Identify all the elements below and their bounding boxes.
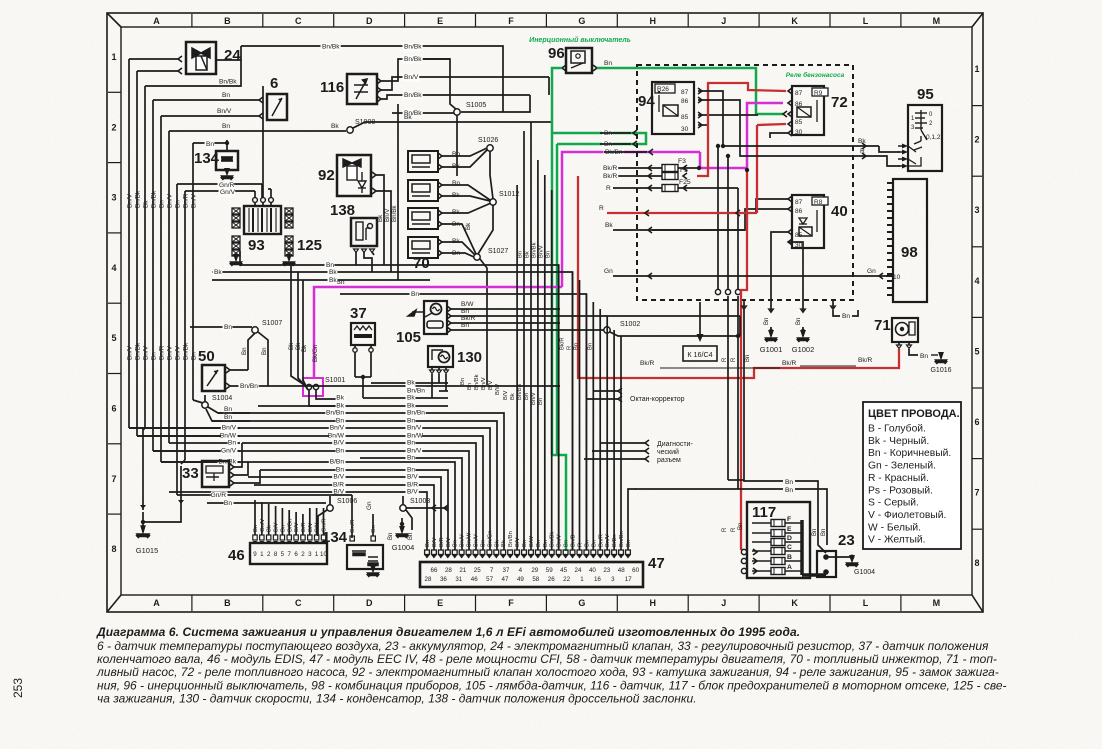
svg-text:D: D xyxy=(366,598,373,608)
secondary left labels on rows xyxy=(221,424,238,432)
svg-text:Bn: Bn xyxy=(228,440,236,447)
wire xyxy=(586,398,618,400)
svg-text:H: H xyxy=(650,598,657,608)
svg-text:Bn/V: Bn/V xyxy=(407,448,422,455)
svg-text:Bn/V: Bn/V xyxy=(330,425,345,432)
svg-text:Bk: Bk xyxy=(525,251,531,258)
wire xyxy=(402,496,404,505)
svg-text:R8: R8 xyxy=(814,199,823,206)
svg-text:Bn/V: Bn/V xyxy=(539,245,545,258)
svg-text:M: M xyxy=(933,16,941,26)
svg-text:66: 66 xyxy=(431,567,438,574)
svg-text:40: 40 xyxy=(831,203,848,220)
svg-text:8: 8 xyxy=(274,551,278,558)
wire xyxy=(698,124,707,126)
svg-text:B/R: B/R xyxy=(407,482,418,489)
svg-text:F25: F25 xyxy=(679,179,691,186)
fan wire xyxy=(620,336,622,550)
svg-text:117: 117 xyxy=(752,504,776,521)
svg-text:Gn/V: Gn/V xyxy=(221,448,237,455)
fan wire xyxy=(523,131,525,550)
svg-text:Bn: Bn xyxy=(407,418,415,425)
svg-text:Инерционный выключатель: Инерционный выключатель xyxy=(529,36,631,44)
svg-text:Bk: Bk xyxy=(465,222,472,230)
svg-text:F: F xyxy=(787,516,791,523)
pin xyxy=(570,550,575,555)
box xyxy=(412,155,430,163)
svg-text:ческий: ческий xyxy=(657,448,679,456)
spark plug connector left 125 xyxy=(232,208,240,214)
wire xyxy=(309,508,311,535)
pin 105 xyxy=(447,313,451,319)
svg-text:Ps - Розовый.: Ps - Розовый. xyxy=(868,485,933,496)
svg-text:M: M xyxy=(933,598,941,608)
wire Bk xyxy=(169,130,346,132)
svg-text:6: 6 xyxy=(974,417,979,427)
box xyxy=(250,543,327,564)
svg-text:Bn: Bn xyxy=(261,347,268,355)
fuse F3 xyxy=(662,165,678,172)
elbow wire xyxy=(169,442,240,444)
svg-text:G1001: G1001 xyxy=(760,345,783,354)
elbow wire xyxy=(153,450,240,452)
pin xyxy=(501,550,506,555)
svg-text:92: 92 xyxy=(318,167,335,184)
wire xyxy=(316,508,318,535)
wire xyxy=(258,332,268,386)
wire xyxy=(610,332,738,336)
box xyxy=(408,180,438,201)
svg-text:Bk: Bk xyxy=(214,269,222,276)
svg-text:Bk/R: Bk/R xyxy=(782,360,797,367)
junction xyxy=(225,141,229,145)
svg-text:Bn: Bn xyxy=(407,440,415,447)
svg-text:Bn/V: Bn/V xyxy=(191,193,198,208)
green to 47 xyxy=(552,455,566,551)
wire Gn/R xyxy=(177,183,262,185)
svg-text:Bn: Bn xyxy=(407,455,415,462)
wire xyxy=(192,143,194,400)
wire xyxy=(445,367,447,370)
svg-text:8: 8 xyxy=(111,544,116,554)
svg-text:134: 134 xyxy=(194,150,220,167)
pin 72 xyxy=(788,88,792,94)
svg-text:B/Bn: B/Bn xyxy=(330,459,345,466)
pin xyxy=(683,185,687,191)
svg-text:Gn/R: Gn/R xyxy=(350,519,356,533)
svg-text:Bn: Bn xyxy=(546,251,552,258)
pin xyxy=(626,550,631,555)
pin xyxy=(591,550,596,555)
pin xyxy=(648,173,652,179)
pin xyxy=(178,68,182,74)
svg-text:Bn/V: Bn/V xyxy=(481,377,487,390)
connector circle xyxy=(715,289,720,294)
svg-text:R9: R9 xyxy=(814,90,823,97)
ground xyxy=(765,331,778,342)
wire xyxy=(445,374,447,391)
wire xyxy=(351,495,353,538)
row wire into 47 xyxy=(242,443,476,550)
fan wire xyxy=(592,302,594,550)
wire xyxy=(234,462,248,475)
fan wire xyxy=(530,122,532,550)
svg-text:28: 28 xyxy=(425,576,432,583)
svg-text:86: 86 xyxy=(795,208,803,215)
row wire into 47 xyxy=(129,428,490,550)
pin xyxy=(633,141,637,147)
wire xyxy=(438,367,440,370)
fan wire xyxy=(516,185,518,550)
svg-text:Bn: Bn xyxy=(224,414,232,421)
wire xyxy=(770,133,788,138)
svg-text:B - Голубой.: B - Голубой. xyxy=(868,423,926,435)
svg-text:Bn: Bn xyxy=(812,529,818,536)
row wire xyxy=(439,390,448,392)
wire xyxy=(879,146,900,152)
wire xyxy=(852,310,858,316)
svg-text:B/V: B/V xyxy=(294,523,300,532)
svg-text:Bn/V: Bn/V xyxy=(407,425,422,432)
svg-text:Bn/Bk: Bn/Bk xyxy=(391,205,398,222)
wire xyxy=(737,488,739,490)
node xyxy=(252,327,258,333)
svg-text:Bn/Bk: Bn/Bk xyxy=(135,342,142,360)
pin xyxy=(372,188,376,194)
svg-text:Bk: Bk xyxy=(510,393,516,400)
svg-text:R: R xyxy=(606,185,611,192)
svg-text:85: 85 xyxy=(681,114,689,121)
svg-text:7: 7 xyxy=(490,567,494,574)
svg-text:Bn/V: Bn/V xyxy=(175,345,182,360)
svg-text:Bn/Bk: Bn/Bk xyxy=(322,44,340,51)
junction xyxy=(721,144,725,148)
svg-text:B/V: B/V xyxy=(407,474,418,481)
svg-text:S1006: S1006 xyxy=(337,498,357,505)
svg-text:Bn/V: Bn/V xyxy=(222,425,237,432)
svg-text:Bk: Bk xyxy=(329,269,337,276)
svg-text:22: 22 xyxy=(563,576,570,583)
svg-text:48: 48 xyxy=(618,567,625,574)
wire xyxy=(145,60,241,86)
wire xyxy=(788,242,803,247)
wire xyxy=(898,342,900,345)
pin xyxy=(649,149,653,155)
wire xyxy=(354,345,356,348)
svg-text:98: 98 xyxy=(901,244,918,261)
wire xyxy=(261,184,263,198)
wire xyxy=(230,369,248,371)
row wire into 47 xyxy=(248,477,441,550)
node xyxy=(306,384,311,389)
svg-text:B/W: B/W xyxy=(529,536,535,547)
svg-text:6: 6 xyxy=(294,551,298,558)
svg-text:86: 86 xyxy=(681,98,689,105)
fan wire xyxy=(585,294,587,550)
connector circle xyxy=(735,289,740,294)
wire xyxy=(431,367,433,370)
pin xyxy=(648,227,652,233)
box xyxy=(908,105,942,171)
node xyxy=(313,384,318,389)
wire xyxy=(254,202,256,206)
wire xyxy=(268,188,271,190)
wire xyxy=(826,556,852,558)
svg-text:25: 25 xyxy=(474,567,481,574)
svg-text:Bn: Bn xyxy=(452,151,460,158)
svg-text:F5: F5 xyxy=(680,167,688,174)
svg-text:Bk: Bk xyxy=(501,540,507,547)
pin xyxy=(438,164,442,170)
node xyxy=(327,505,333,511)
svg-text:B/V: B/V xyxy=(488,381,494,390)
node S1027 xyxy=(474,254,480,260)
svg-text:ния, 96 - инерционный выключат: ния, 96 - инерционный выключатель, 98 - … xyxy=(97,678,1007,692)
svg-text:разъем: разъем xyxy=(657,457,681,464)
svg-text:Gn: Gn xyxy=(604,268,613,275)
svg-text:Bn: Bn xyxy=(626,540,632,547)
wire xyxy=(275,506,277,535)
svg-text:Bk: Bk xyxy=(267,525,273,532)
wire xyxy=(552,68,562,131)
svg-text:R: R xyxy=(577,543,583,547)
pin xyxy=(577,550,582,555)
wire xyxy=(737,296,739,489)
ground G1004 right xyxy=(846,556,859,567)
svg-text:Bn/Bk: Bn/Bk xyxy=(474,374,480,390)
svg-text:Bk: Bk xyxy=(288,342,295,350)
svg-text:Bn/V: Bn/V xyxy=(143,345,150,360)
wire xyxy=(364,252,372,272)
box xyxy=(202,365,225,391)
svg-text:Bn/R: Bn/R xyxy=(159,345,166,360)
svg-text:K: K xyxy=(791,598,798,608)
svg-text:B: B xyxy=(224,598,231,608)
wire xyxy=(442,224,476,254)
svg-text:2: 2 xyxy=(111,122,116,132)
svg-text:ЦВЕТ ПРОВОДА.: ЦВЕТ ПРОВОДА. xyxy=(868,408,960,420)
svg-text:3: 3 xyxy=(308,551,312,558)
junction xyxy=(400,522,404,526)
wire xyxy=(744,300,783,481)
pin xyxy=(619,550,624,555)
fuse B xyxy=(771,558,785,565)
box xyxy=(863,402,961,549)
svg-text:Bn: Bn xyxy=(336,448,344,455)
svg-text:26: 26 xyxy=(548,576,555,583)
svg-text:28: 28 xyxy=(445,567,452,574)
svg-text:B/V: B/V xyxy=(333,474,344,481)
wire xyxy=(552,133,646,144)
wire xyxy=(548,77,550,95)
svg-text:96: 96 xyxy=(548,45,565,62)
wire to S1004 xyxy=(193,400,203,403)
pin xyxy=(432,505,436,511)
wire xyxy=(323,508,325,535)
wire xyxy=(208,407,250,413)
wire xyxy=(442,185,490,200)
svg-text:J: J xyxy=(721,16,726,26)
wire xyxy=(136,71,138,436)
wire xyxy=(717,146,719,289)
svg-text:70: 70 xyxy=(413,255,430,272)
wire xyxy=(908,342,910,345)
svg-text:Bk: Bk xyxy=(336,395,344,402)
fuse C xyxy=(771,548,785,555)
thick wire 117 to battery xyxy=(802,573,826,577)
svg-text:40: 40 xyxy=(589,567,596,574)
pin xyxy=(612,550,617,555)
svg-text:Bn: Bn xyxy=(241,347,248,355)
pin 94 xyxy=(698,88,702,94)
svg-text:57: 57 xyxy=(486,576,493,583)
wire xyxy=(456,115,458,176)
pin xyxy=(683,173,687,179)
svg-text:Bn/Bk: Bn/Bk xyxy=(151,190,158,208)
svg-text:87: 87 xyxy=(795,90,803,97)
wire xyxy=(876,156,900,166)
svg-text:30: 30 xyxy=(795,129,803,136)
box xyxy=(347,74,377,104)
wire xyxy=(295,512,297,535)
junction xyxy=(361,375,365,379)
svg-text:Bn: Bn xyxy=(326,262,334,269)
svg-text:130: 130 xyxy=(457,349,482,366)
wire Bn to 6 xyxy=(153,99,259,101)
wire xyxy=(478,205,493,254)
wire xyxy=(727,156,729,289)
pin xyxy=(438,193,442,199)
svg-text:G1004: G1004 xyxy=(392,543,415,552)
svg-text:G1015: G1015 xyxy=(136,546,159,555)
svg-text:G1002: G1002 xyxy=(792,345,815,354)
pin xyxy=(605,550,610,555)
box xyxy=(792,86,824,135)
pin xyxy=(593,65,597,71)
box xyxy=(347,545,383,569)
svg-text:87: 87 xyxy=(795,199,803,206)
svg-text:L: L xyxy=(863,598,869,608)
pin xyxy=(645,448,649,454)
wire xyxy=(451,308,560,310)
svg-text:Bn/Bk: Bn/Bk xyxy=(183,342,190,360)
pin xyxy=(438,210,442,216)
wire xyxy=(204,395,206,402)
wire xyxy=(698,91,879,146)
svg-text:S1001: S1001 xyxy=(325,377,345,384)
wire xyxy=(613,187,662,189)
svg-text:Bn: Bn xyxy=(785,479,793,486)
svg-text:S1007: S1007 xyxy=(262,320,282,327)
svg-text:Bn/V: Bn/V xyxy=(404,74,419,81)
wire xyxy=(613,275,886,277)
wire xyxy=(739,316,741,336)
svg-text:1: 1 xyxy=(580,576,584,583)
pin xyxy=(618,388,622,394)
svg-text:B/Bn: B/Bn xyxy=(612,534,618,547)
svg-text:Bk: Bk xyxy=(143,200,150,208)
pin xyxy=(466,550,471,555)
pin xyxy=(562,65,566,71)
svg-text:Bn/Bk: Bn/Bk xyxy=(550,531,556,547)
svg-text:R: R xyxy=(722,357,728,362)
svg-text:Bn: Bn xyxy=(764,318,770,325)
wire xyxy=(490,151,493,199)
wire xyxy=(268,504,270,535)
svg-text:Bn: Bn xyxy=(460,378,466,385)
svg-text:Bn: Bn xyxy=(336,467,344,474)
svg-text:37: 37 xyxy=(350,305,367,322)
svg-text:Bn/W: Bn/W xyxy=(467,532,473,547)
spark plugs 125 lower xyxy=(232,236,240,242)
wire Bk xyxy=(309,390,340,406)
row wire into 47 xyxy=(137,436,483,550)
pin 94 xyxy=(698,122,702,128)
wire xyxy=(181,460,185,464)
svg-text:Bn/W: Bn/W xyxy=(328,433,345,440)
wire to 24 xyxy=(129,58,178,60)
pin xyxy=(563,550,568,555)
svg-text:B/V: B/V xyxy=(407,489,418,496)
wire xyxy=(613,209,788,230)
svg-text:S1027: S1027 xyxy=(488,248,508,255)
coil top pins xyxy=(253,198,258,203)
svg-text:Bn - Коричневый.: Bn - Коричневый. xyxy=(868,448,951,459)
wire xyxy=(410,59,457,110)
wire xyxy=(756,199,788,213)
wire xyxy=(303,280,308,390)
svg-text:Bk: Bk xyxy=(407,403,415,410)
svg-text:Bk/R: Bk/R xyxy=(560,337,566,350)
svg-text:Bn: Bn xyxy=(425,540,431,547)
svg-text:Диагности-: Диагности- xyxy=(657,441,693,448)
junction xyxy=(850,555,855,560)
wire xyxy=(176,184,178,495)
svg-text:B/V: B/V xyxy=(274,523,280,532)
svg-text:Bn/V: Bn/V xyxy=(127,345,134,360)
svg-text:3: 3 xyxy=(111,193,116,203)
pin xyxy=(529,550,534,555)
node xyxy=(400,505,406,511)
svg-text:Bn: Bn xyxy=(408,533,414,540)
row wire into 47 xyxy=(260,470,448,550)
wire xyxy=(142,428,144,510)
svg-text:B/V: B/V xyxy=(446,538,452,547)
fan wire xyxy=(558,265,560,550)
svg-text:47: 47 xyxy=(648,555,665,572)
wire xyxy=(184,191,186,460)
pin xyxy=(226,367,230,373)
wire xyxy=(410,121,553,123)
svg-text:Bn/Bk: Bn/Bk xyxy=(532,242,538,258)
junction xyxy=(736,334,740,338)
row wire into 47 xyxy=(360,458,462,550)
svg-text:125: 125 xyxy=(297,237,322,254)
svg-text:Bn/V: Bn/V xyxy=(557,534,563,547)
wire Gn/V xyxy=(185,190,255,192)
wire xyxy=(832,300,834,309)
pin xyxy=(783,111,787,117)
wire xyxy=(142,512,144,530)
box xyxy=(747,502,810,578)
wire xyxy=(160,116,162,462)
svg-text:Bn: Bn xyxy=(411,291,419,298)
junction xyxy=(726,154,730,158)
pin xyxy=(862,153,866,159)
wire xyxy=(207,502,326,504)
svg-text:5: 5 xyxy=(974,346,979,356)
green vertical 2 xyxy=(556,144,559,455)
